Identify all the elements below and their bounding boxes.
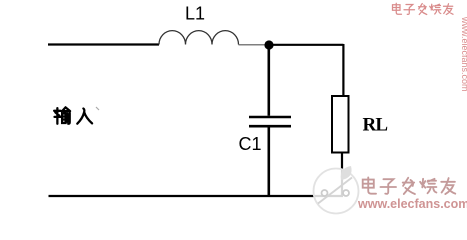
wire: C1 bottom lead (267, 128, 270, 197)
svg-text:www.elecfans.com: www.elecfans.com (460, 16, 467, 92)
inductor L1 (159, 31, 239, 45)
wire: bottom return wire (49, 195, 344, 197)
wire: top input wire (48, 43, 159, 45)
wire: node to RL branch (top right) (269, 44, 343, 96)
wire: node down to C1 (267, 45, 270, 116)
svg-text:C1: C1 (239, 134, 262, 154)
wire: inductor to node (239, 44, 266, 46)
watermark text 电子发烧友 (bottom right) (363, 177, 456, 194)
svg-text:www.elecfans.com: www.elecfans.com (357, 197, 467, 211)
noise tick right of 输入 (96, 107, 99, 110)
svg-text:RL: RL (363, 115, 388, 136)
node junction dot (264, 40, 273, 49)
resistor RL (332, 96, 349, 153)
svg-text:L1: L1 (185, 4, 205, 24)
capacitor C1 (249, 117, 291, 126)
wire: RL bottom lead (341, 153, 343, 196)
watermark logo circle (bottom right) (314, 166, 359, 214)
watermark text 电子发烧友 (top right) (393, 3, 454, 14)
label 输入 (input) (54, 107, 92, 123)
